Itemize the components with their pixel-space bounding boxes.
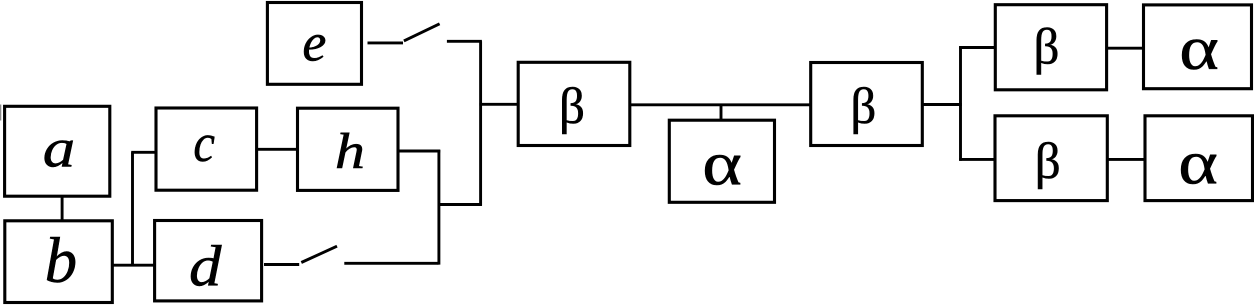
wire beta4 to alpha3	[1107, 158, 1145, 161]
box beta2	[811, 63, 923, 146]
wire switch to vertical	[344, 262, 438, 265]
box beta4	[995, 116, 1107, 201]
wire beta2 to bus	[922, 103, 962, 106]
wire junction vertical b/c	[131, 152, 134, 266]
wire junction to c	[131, 151, 156, 154]
switch blade at e	[404, 24, 440, 41]
box d	[155, 221, 262, 301]
svg-text:a: a	[43, 118, 75, 179]
wire bus vertical	[959, 46, 962, 161]
wire c to h	[257, 148, 298, 151]
svg-text:b: b	[45, 225, 78, 297]
svg-text:β: β	[559, 79, 585, 135]
wire a-b	[61, 196, 64, 221]
wire beta3 to alpha2	[1107, 47, 1144, 50]
box a	[5, 106, 110, 196]
svg-text:β: β	[1035, 134, 1061, 190]
svg-text:α: α	[1179, 14, 1219, 84]
svg-text:β: β	[850, 79, 876, 135]
svg-text:β: β	[1034, 20, 1060, 76]
wire beta1 to beta2	[630, 103, 811, 106]
box b	[5, 221, 113, 303]
box alpha1	[669, 120, 774, 202]
box alpha3	[1145, 116, 1253, 201]
wire switch to vertical e-branch	[447, 40, 482, 43]
wire to beta1	[479, 103, 518, 106]
svg-text:h: h	[335, 123, 365, 180]
svg-text:α: α	[702, 129, 742, 199]
wire bus to beta3	[959, 46, 995, 49]
svg-text:d: d	[189, 235, 222, 299]
box beta1	[518, 62, 630, 145]
wire bus to beta4	[959, 158, 995, 161]
wire h to vertical	[398, 150, 440, 153]
box beta3	[995, 5, 1106, 90]
wire cross connector	[438, 203, 482, 206]
box alpha2	[1144, 5, 1252, 89]
svg-text:α: α	[1178, 128, 1218, 198]
svg-text:c: c	[193, 114, 215, 174]
wire vertical e-branch	[479, 41, 482, 206]
box e	[267, 3, 361, 85]
box h	[298, 108, 399, 190]
box c	[156, 108, 257, 190]
wire d to switch	[264, 263, 299, 266]
wire e to switch	[368, 41, 404, 44]
svg-text:e: e	[302, 12, 326, 72]
wire tap to alpha1	[720, 105, 723, 120]
wire b to d	[112, 264, 154, 267]
switch blade at d	[301, 246, 337, 262]
wire vertical h/d	[437, 150, 440, 265]
edge artifact at image left	[0, 105, 1, 121]
